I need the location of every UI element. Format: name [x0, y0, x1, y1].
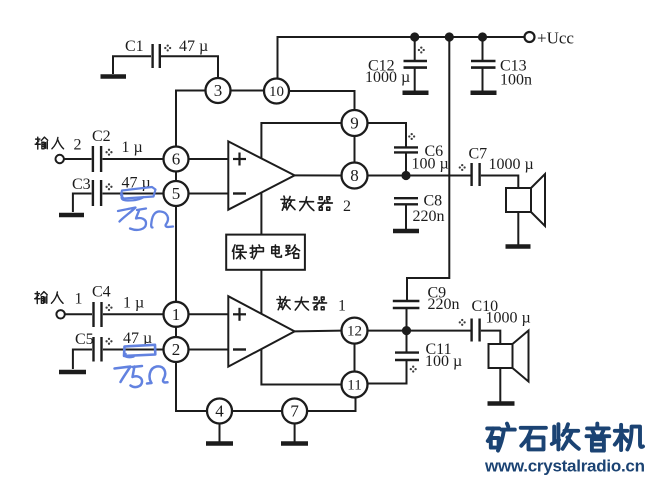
node 8 — [342, 163, 368, 189]
wire node2 to amp1 — [189, 349, 229, 351]
value 220n C8 — [413, 208, 445, 225]
value 47u C3 — [122, 175, 151, 192]
ground C12 — [403, 91, 429, 96]
wire node9 feedback to amp2 — [261, 123, 341, 158]
wire node7 to node11 — [307, 398, 356, 411]
wire amp2 output to node8 — [295, 174, 342, 176]
ground C1 — [101, 74, 127, 79]
svg-text:2: 2 — [172, 340, 181, 359]
value 220n C9 — [428, 296, 460, 313]
wire speaker1 to ground — [517, 212, 519, 245]
op-amp amplifier 2 — [228, 141, 294, 209]
svg-text:9: 9 — [350, 114, 359, 133]
pin + amp1 — [233, 308, 246, 321]
node 11 — [342, 372, 368, 398]
svg-text:10: 10 — [269, 84, 284, 100]
svg-text:C5: C5 — [75, 331, 94, 348]
polarity C11 — [410, 366, 417, 373]
pin number 10 — [269, 84, 284, 100]
node 5 — [164, 181, 189, 206]
label C10 — [472, 298, 499, 315]
junction rail C13 — [479, 33, 486, 40]
polarity C5 — [105, 338, 112, 345]
svg-text:3: 3 — [214, 81, 223, 100]
polarity C6 — [408, 133, 415, 140]
junction node8/C6/C8 — [402, 172, 409, 179]
label C7 — [469, 146, 488, 163]
pin number 12 — [347, 324, 362, 340]
value 1000u C10 — [486, 310, 531, 327]
value 47u C1 — [179, 38, 208, 55]
wire speaker2 to ground — [499, 368, 501, 402]
wire C7 to speaker — [481, 176, 519, 189]
op-amp amplifier 1 — [228, 296, 294, 366]
annotation blue box around 47u upper — [121, 187, 156, 201]
label C12 — [368, 58, 395, 75]
node 3 — [206, 78, 231, 103]
wire node9 to node8 — [354, 136, 356, 163]
svg-text:C2: C2 — [92, 128, 111, 145]
polarity C1 — [164, 44, 171, 51]
capacitor C5 — [94, 337, 102, 362]
svg-text:1 µ: 1 µ — [123, 295, 144, 312]
ground speaker1 — [506, 244, 531, 249]
protection circuit box — [226, 235, 305, 270]
watermark logo kuangshi shouyinji — [487, 424, 643, 451]
label C8 — [424, 193, 443, 210]
wire node12-node11 — [354, 344, 356, 372]
label C1 — [125, 38, 144, 55]
svg-text:+Ucc: +Ucc — [537, 29, 574, 48]
svg-text:C4: C4 — [92, 284, 111, 301]
svg-text:2: 2 — [343, 198, 351, 215]
capacitor C10 — [472, 319, 480, 342]
pin number 4 — [215, 402, 224, 421]
label input 1 (shuru 1) — [35, 292, 63, 304]
capacitor C1 — [153, 44, 160, 68]
label amplifier 1 (fangdaqi 1) — [277, 296, 327, 310]
value 1u C2 — [122, 139, 143, 156]
node Ucc terminal — [525, 32, 535, 42]
wire input2 to C2 — [64, 158, 92, 160]
label amplifier 2 (fangdaqi 2) — [281, 196, 332, 210]
wire C3 to node5 — [103, 193, 164, 195]
label C9 — [428, 285, 447, 302]
wire node1-node2 — [175, 327, 177, 337]
wire C2 to node6 — [103, 158, 164, 160]
svg-text:220n: 220n — [428, 296, 460, 313]
svg-text:12: 12 — [347, 324, 362, 340]
junction rail x449 — [446, 33, 453, 40]
node 4 — [207, 399, 232, 424]
svg-text:1000 µ: 1000 µ — [489, 156, 534, 173]
svg-text:www.crystalradio.cn: www.crystalradio.cn — [484, 457, 645, 476]
junction node12/C9/C11 — [403, 327, 410, 334]
label C6 — [425, 143, 444, 160]
capacitor C13 — [471, 37, 496, 91]
polarity C12 — [418, 46, 425, 53]
node 9 — [342, 110, 368, 136]
svg-text:C8: C8 — [424, 193, 443, 210]
svg-text:1: 1 — [338, 298, 346, 315]
node 10 — [264, 79, 289, 104]
pin number 8 — [350, 166, 359, 185]
svg-text:1 µ: 1 µ — [122, 139, 143, 156]
pin - amp2 — [233, 192, 246, 194]
svg-text:47 µ: 47 µ — [179, 38, 208, 55]
wire C1 left to ground — [113, 56, 151, 74]
capacitor C7 — [472, 163, 480, 186]
annotation 75 ohm upper (blue handwriting) — [118, 208, 173, 230]
wire input1 to C4 — [65, 313, 92, 315]
ground C13 — [471, 91, 497, 96]
wire node5 to amp2 — [189, 193, 229, 195]
label C3 — [72, 176, 91, 193]
wire node11 feedback to amp1 — [261, 349, 341, 384]
wire node12 to C10 — [368, 330, 472, 332]
watermark url www.crystalradio.cn — [484, 457, 645, 476]
capacitor C12 — [404, 37, 428, 91]
polarity C3 — [105, 183, 112, 190]
value 1u C4 — [123, 295, 144, 312]
node 6 — [164, 147, 189, 172]
node 7 — [282, 399, 307, 424]
pin number 11 — [347, 378, 361, 394]
annotation blue box around 47u lower — [124, 345, 155, 357]
wire node9 to C6 — [368, 123, 407, 147]
capacitor C9 — [393, 301, 420, 331]
pin number 9 — [350, 114, 359, 133]
wire rail drop x449 — [407, 37, 449, 300]
svg-text:6: 6 — [172, 150, 181, 169]
svg-text:4: 4 — [215, 402, 224, 421]
ground C3 — [59, 213, 84, 218]
value 47u C5 — [123, 330, 152, 347]
wire C8 to ground — [405, 204, 407, 229]
svg-text:100n: 100n — [500, 72, 532, 89]
label C4 — [92, 284, 111, 301]
ground C8 — [393, 229, 419, 234]
svg-text:1: 1 — [172, 305, 181, 324]
input 1 terminal — [56, 310, 64, 318]
capacitor C3 — [93, 180, 101, 206]
svg-text:1000 µ: 1000 µ — [486, 310, 531, 327]
svg-text:1: 1 — [75, 291, 83, 308]
wire C11 to node11 — [368, 360, 407, 384]
wire node8 to C7 — [368, 175, 472, 177]
pin number 5 — [172, 184, 181, 203]
wire C1 right to node 3 — [161, 56, 218, 78]
capacitor C11 — [395, 331, 419, 360]
svg-text:C1: C1 — [125, 38, 144, 55]
wire C5 to node2 — [103, 349, 164, 351]
svg-text:100 µ: 100 µ — [412, 156, 449, 173]
label +Ucc — [537, 29, 574, 48]
value 100u C6 — [412, 156, 449, 173]
capacitor C6 — [394, 147, 418, 152]
ground C5 — [59, 370, 86, 375]
wire node3 to node10 — [231, 90, 265, 92]
pin number 6 — [172, 150, 181, 169]
polarity C2 — [105, 149, 112, 156]
node 1 — [164, 302, 189, 327]
value 100n C13 — [500, 72, 532, 89]
wire amp2 to box — [260, 193, 262, 235]
wire C10 to speaker2 — [481, 331, 501, 344]
svg-text:11: 11 — [347, 378, 361, 394]
speaker 1 — [506, 174, 545, 226]
speaker 2 — [489, 331, 529, 382]
wire left column node5-node1 — [175, 206, 177, 302]
pin number 7 — [290, 402, 299, 421]
capacitor C4 — [94, 302, 102, 327]
input 2 terminal — [56, 155, 64, 163]
wire C4 to node1 — [103, 313, 164, 315]
svg-text:8: 8 — [350, 166, 359, 185]
pin number 3 — [214, 81, 223, 100]
label input 2 (shuru 2) — [35, 137, 63, 149]
wire top rail to +Ucc — [278, 37, 525, 79]
value 1000u C12 — [365, 69, 410, 86]
svg-text:C7: C7 — [469, 146, 488, 163]
wire node10 to node9 — [289, 91, 355, 110]
pin number 2 — [172, 340, 181, 359]
pin number 1 — [172, 305, 181, 324]
svg-text:220n: 220n — [413, 208, 445, 225]
label C2 — [92, 128, 111, 145]
ground node4 — [206, 424, 233, 444]
wire amp1 output to node12 — [295, 330, 342, 333]
svg-text:C3: C3 — [72, 176, 91, 193]
label protection circuit (baohu dianlu) — [232, 245, 299, 259]
wire left column node6-node5 — [175, 172, 177, 182]
wire node3 to left column — [176, 91, 206, 147]
svg-text:7: 7 — [290, 402, 299, 421]
pin - amp1 — [233, 348, 246, 350]
node 12 — [342, 318, 368, 344]
label C13 — [500, 58, 527, 75]
label C5 — [75, 331, 94, 348]
capacitor C8 — [394, 198, 418, 204]
polarity C7 — [459, 164, 466, 171]
wire C6 to node8 row — [405, 152, 407, 175]
wire C5 ground branch — [73, 350, 92, 370]
wire C3 ground branch — [73, 194, 92, 213]
ground node7 — [281, 424, 308, 444]
label C11 — [426, 341, 452, 358]
svg-text:2: 2 — [74, 137, 82, 154]
wire node6 to amp2 — [189, 158, 229, 160]
wire node2 to node4 — [176, 362, 207, 411]
svg-text:1000 µ: 1000 µ — [365, 69, 410, 86]
svg-text:100 µ: 100 µ — [425, 353, 462, 370]
value 1000u C7 — [489, 156, 534, 173]
wire node1 to amp1 — [189, 313, 229, 315]
node 2 — [164, 337, 189, 362]
svg-text:5: 5 — [172, 184, 181, 203]
capacitor C2 — [93, 146, 101, 172]
polarity C4 — [105, 304, 112, 311]
wire node4 to node7 — [232, 410, 282, 412]
ground speaker2 — [488, 401, 515, 406]
pin + amp2 — [233, 153, 246, 166]
annotation 75 ohm lower (blue handwriting) — [115, 366, 168, 387]
junction rail C12 — [411, 33, 418, 40]
wire box to amp1 — [260, 270, 262, 314]
polarity C10 — [459, 319, 466, 326]
value 100u C11 — [425, 353, 462, 370]
